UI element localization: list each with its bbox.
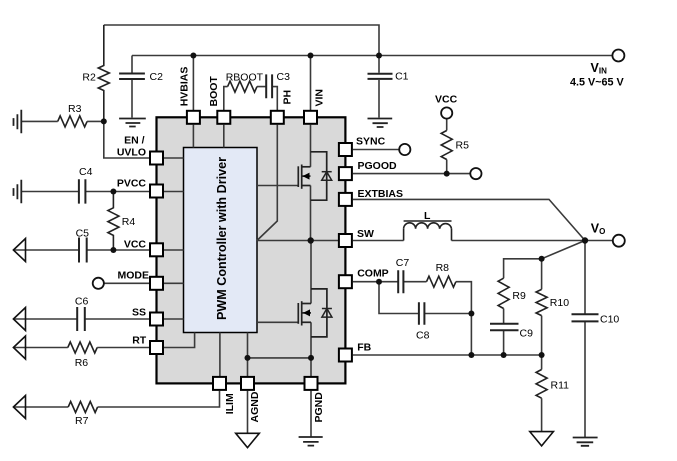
wire top FET gate <box>257 185 298 187</box>
terminal C5 (triangle) <box>13 239 25 262</box>
pin SYNC <box>339 143 352 156</box>
svg-text:R3: R3 <box>68 103 82 115</box>
resistor R11 <box>536 370 547 399</box>
terminal SYNC (circle) <box>399 144 410 155</box>
node PVCC R4 <box>110 189 116 195</box>
pin COMP <box>339 275 352 288</box>
capacitor C8 <box>419 302 425 325</box>
ground C2 (earth) <box>119 119 146 127</box>
wire FB net <box>353 354 542 356</box>
node PGND bus <box>308 355 314 361</box>
capacitor C1 <box>368 74 393 79</box>
svg-text:R8: R8 <box>436 262 450 274</box>
svg-text:ILIM: ILIM <box>224 393 236 414</box>
svg-text:SW: SW <box>357 228 374 240</box>
wire C6 SS net <box>13 318 149 320</box>
wire COMP net <box>353 282 472 314</box>
svg-text:C3: C3 <box>277 71 291 83</box>
resistor R9 <box>498 278 509 308</box>
pin SS <box>150 313 163 326</box>
resistor R8 <box>427 276 456 287</box>
svg-text:EXTBIAS: EXTBIAS <box>358 188 404 200</box>
svg-text:R4: R4 <box>122 216 136 228</box>
svg-text:VCC: VCC <box>435 94 458 106</box>
resistor R3 <box>58 116 87 127</box>
capacitor C6 <box>77 307 85 331</box>
pin EN/UVLO <box>150 152 163 165</box>
wire C4 PVCC net <box>21 191 149 193</box>
ground R3 (rotated earth) <box>14 110 22 133</box>
wire bottom FET gate <box>257 321 298 323</box>
transistor Q1 high-side NMOS <box>298 152 326 200</box>
wire SW to inductor to Vo <box>353 240 613 242</box>
pin PVCC <box>150 185 163 198</box>
wire R6 RT net <box>13 347 149 349</box>
pin HVBIAS <box>187 111 200 124</box>
wire R7 ILIM net <box>13 391 219 407</box>
terminal R6 (triangle) <box>13 336 25 359</box>
svg-text:BOOT: BOOT <box>208 76 220 107</box>
pin MODE <box>150 277 163 290</box>
wire EXTBIAS out <box>353 199 585 240</box>
wire C1 stems <box>378 56 380 118</box>
pin ILIM <box>213 377 226 390</box>
wire R3 to junction <box>21 120 104 122</box>
resistor RBOOT <box>228 81 257 92</box>
node VO <box>582 237 588 243</box>
wire C10 branch <box>584 241 586 438</box>
ground C4 (rotated earth) <box>14 180 22 203</box>
pin SW <box>339 234 352 247</box>
wire C5 VCC net <box>13 249 149 251</box>
node C1 rail <box>376 53 382 59</box>
capacitor C2 <box>119 74 145 80</box>
pin VCC <box>150 243 163 256</box>
svg-text:R7: R7 <box>75 415 89 427</box>
wire R10 branch <box>541 259 543 355</box>
node FB R10 R11 <box>539 352 545 358</box>
capacitor C5 <box>79 238 87 263</box>
svg-text:PWM Controller with Driver: PWM Controller with Driver <box>215 157 229 320</box>
wire MODE internal <box>164 282 184 284</box>
wire EN/UVLO feed <box>104 121 149 158</box>
svg-text:R10: R10 <box>550 297 569 309</box>
svg-text:L: L <box>424 210 431 222</box>
wire EN/UVLO internal <box>164 157 184 159</box>
svg-text:COMP: COMP <box>357 268 389 280</box>
svg-text:VCC: VCC <box>124 238 147 250</box>
ground R11 (open triangle) <box>530 432 554 446</box>
svg-text:R6: R6 <box>75 357 89 369</box>
svg-text:PH: PH <box>281 90 293 105</box>
wire HVBIAS pin drop <box>192 56 194 111</box>
pin PGOOD <box>339 167 352 180</box>
svg-text:PVCC: PVCC <box>117 178 147 190</box>
pin RT <box>150 341 163 354</box>
wire SS internal <box>164 318 184 320</box>
node FB comp <box>468 352 474 358</box>
wire AGND-PGND internal bus <box>248 357 312 359</box>
svg-text:C5: C5 <box>76 227 90 239</box>
wire top rail from R2 to C1 <box>104 25 379 56</box>
wire PGOOD out <box>353 173 470 175</box>
wire VIN pin drop <box>310 56 312 111</box>
wire AGND internal <box>247 333 249 377</box>
svg-text:R2: R2 <box>82 71 96 83</box>
resistor R5 <box>441 131 452 160</box>
wire BOOT internal <box>223 125 225 148</box>
pin PGND <box>305 377 318 390</box>
node AGND bus <box>245 355 251 361</box>
svg-text:C2: C2 <box>150 71 164 83</box>
svg-text:RT: RT <box>132 335 147 347</box>
wire PGND internal <box>310 322 312 377</box>
capacitor C4 <box>79 179 86 203</box>
terminal R7 (triangle) <box>13 396 25 419</box>
capacitor C7 <box>398 270 403 293</box>
svg-text:SS: SS <box>132 307 146 319</box>
svg-text:4.5 V~65 V: 4.5 V~65 V <box>570 76 625 88</box>
wire C2 stems <box>131 56 133 118</box>
wire HVBIAS internal <box>192 125 194 148</box>
resistor R7 <box>68 402 97 413</box>
terminal C6 (triangle) <box>13 308 25 331</box>
svg-text:RBOOT: RBOOT <box>226 72 264 84</box>
svg-text:C1: C1 <box>395 71 409 83</box>
terminal PGOOD (circle) <box>470 168 481 179</box>
diode D2 body diode low-side <box>322 309 332 318</box>
terminal VO (circle) <box>613 235 625 247</box>
resistor R10 <box>536 289 547 315</box>
svg-text:C4: C4 <box>79 166 93 178</box>
wire MODE net <box>104 282 149 284</box>
wire VCC internal <box>164 249 184 251</box>
node SW <box>308 237 314 243</box>
svg-text:VIN: VIN <box>314 89 326 107</box>
node R2 R3 EN <box>101 118 107 124</box>
svg-text:EN /: EN / <box>124 134 145 146</box>
pin BOOT <box>217 111 230 124</box>
ground AGND (open triangle) <box>236 433 260 447</box>
svg-text:MODE: MODE <box>118 269 150 281</box>
inductor L <box>404 221 452 241</box>
svg-text:UVLO: UVLO <box>117 147 146 159</box>
wire R5 stem <box>446 119 448 174</box>
capacitor C3 <box>266 74 272 98</box>
IC body U1 <box>157 117 346 383</box>
labels: component refs <box>68 71 619 428</box>
svg-text:C8: C8 <box>416 330 430 342</box>
ground PGND (earth) <box>299 437 323 446</box>
pin PH <box>271 111 284 124</box>
wire Vo down to R10 top <box>542 241 585 259</box>
svg-text:VIN: VIN <box>591 61 608 76</box>
diode D1 body diode high-side <box>322 172 332 181</box>
node HVBIAS rail <box>190 53 196 59</box>
wire PVCC internal <box>164 191 184 193</box>
svg-text:PGOOD: PGOOD <box>358 160 398 172</box>
resistor R4 <box>108 192 119 251</box>
ground C1 (earth) <box>368 119 393 128</box>
svg-text:PGND: PGND <box>313 392 325 423</box>
terminal VIN (circle) <box>612 50 624 62</box>
transistor Q2 low-side NMOS <box>298 289 327 337</box>
node VIN rail <box>308 53 314 59</box>
wire AGND drop <box>247 391 249 433</box>
svg-text:HVBIAS: HVBIAS <box>179 67 191 107</box>
node R8 C8 <box>468 311 474 317</box>
pin VIN <box>304 111 317 124</box>
wire SW internal <box>257 240 338 242</box>
terminal VCC (circle) <box>441 107 452 118</box>
wire SYNC out <box>353 149 399 151</box>
wire VIN rail <box>132 55 612 57</box>
wire bottom FET drain from SW <box>310 241 312 304</box>
wire PH internal <box>257 125 277 241</box>
wire R9 branch <box>504 259 542 355</box>
wire ILIM internal <box>219 333 221 377</box>
svg-text:FB: FB <box>357 342 371 354</box>
svg-text:C7: C7 <box>396 257 410 269</box>
wire RT internal <box>164 333 195 348</box>
node R5 PGOOD <box>444 171 450 177</box>
pin squares <box>150 111 352 390</box>
resistor R6 <box>68 342 97 353</box>
wire VIN internal drain <box>310 125 312 167</box>
node VCC R4 <box>110 247 116 253</box>
svg-text:C9: C9 <box>520 328 534 340</box>
svg-text:SYNC: SYNC <box>356 136 386 148</box>
labels: pin names <box>117 67 458 423</box>
wire C8 branch <box>379 282 471 355</box>
svg-text:VO: VO <box>591 221 606 236</box>
capacitor C9 <box>490 324 519 331</box>
node COMP C7 C8 <box>376 279 382 285</box>
resistor R2 <box>98 25 109 121</box>
svg-text:C6: C6 <box>75 296 89 308</box>
terminal MODE (circle) <box>93 278 104 289</box>
node FB C9 <box>501 352 507 358</box>
wire R11 branch <box>541 355 543 432</box>
svg-text:R9: R9 <box>512 290 526 302</box>
pin FB <box>339 349 352 362</box>
svg-text:AGND: AGND <box>249 391 261 422</box>
capacitor C10 <box>572 314 599 321</box>
wire PGND drop <box>310 391 312 437</box>
svg-text:R11: R11 <box>551 380 570 392</box>
pin AGND <box>241 377 254 390</box>
svg-text:R5: R5 <box>456 140 470 152</box>
wire top FET source to SW <box>310 186 312 241</box>
ground C10 (earth) <box>573 438 598 446</box>
PWM controller block <box>184 148 258 333</box>
pin EXTBIAS <box>339 193 352 206</box>
wire BOOT RBOOT C3 loop <box>224 87 277 110</box>
node R9 R10 <box>539 256 545 262</box>
svg-text:C10: C10 <box>600 314 619 326</box>
